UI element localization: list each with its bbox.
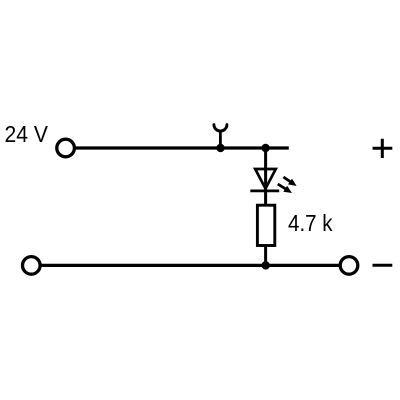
LED D1 emission arrow lower	[278, 184, 292, 193]
terminal circle bottom left	[23, 257, 41, 275]
resistor R1 body	[257, 205, 274, 245]
LED D1 cathode bar	[250, 190, 279, 193]
minus polarity mark	[373, 264, 393, 267]
LED D1 emission arrow upper	[283, 177, 296, 186]
junction dot bottom	[262, 261, 270, 269]
svg-text:4.7 k: 4.7 k	[288, 210, 333, 236]
terminal circle 24V input	[57, 139, 75, 157]
tap symbol stem	[219, 130, 222, 149]
wire bottom rail	[40, 264, 341, 267]
LED D1 triangle anode	[255, 169, 276, 189]
plus polarity mark	[373, 139, 393, 158]
junction dot at tap	[216, 144, 224, 152]
svg-text:24 V: 24 V	[5, 121, 49, 147]
junction dot LED branch top	[261, 144, 269, 152]
terminal circle bottom right	[340, 257, 358, 275]
tap symbol fork arc	[214, 125, 227, 132]
wire LED branch vertical	[264, 148, 267, 265]
wire top rail	[75, 146, 289, 149]
